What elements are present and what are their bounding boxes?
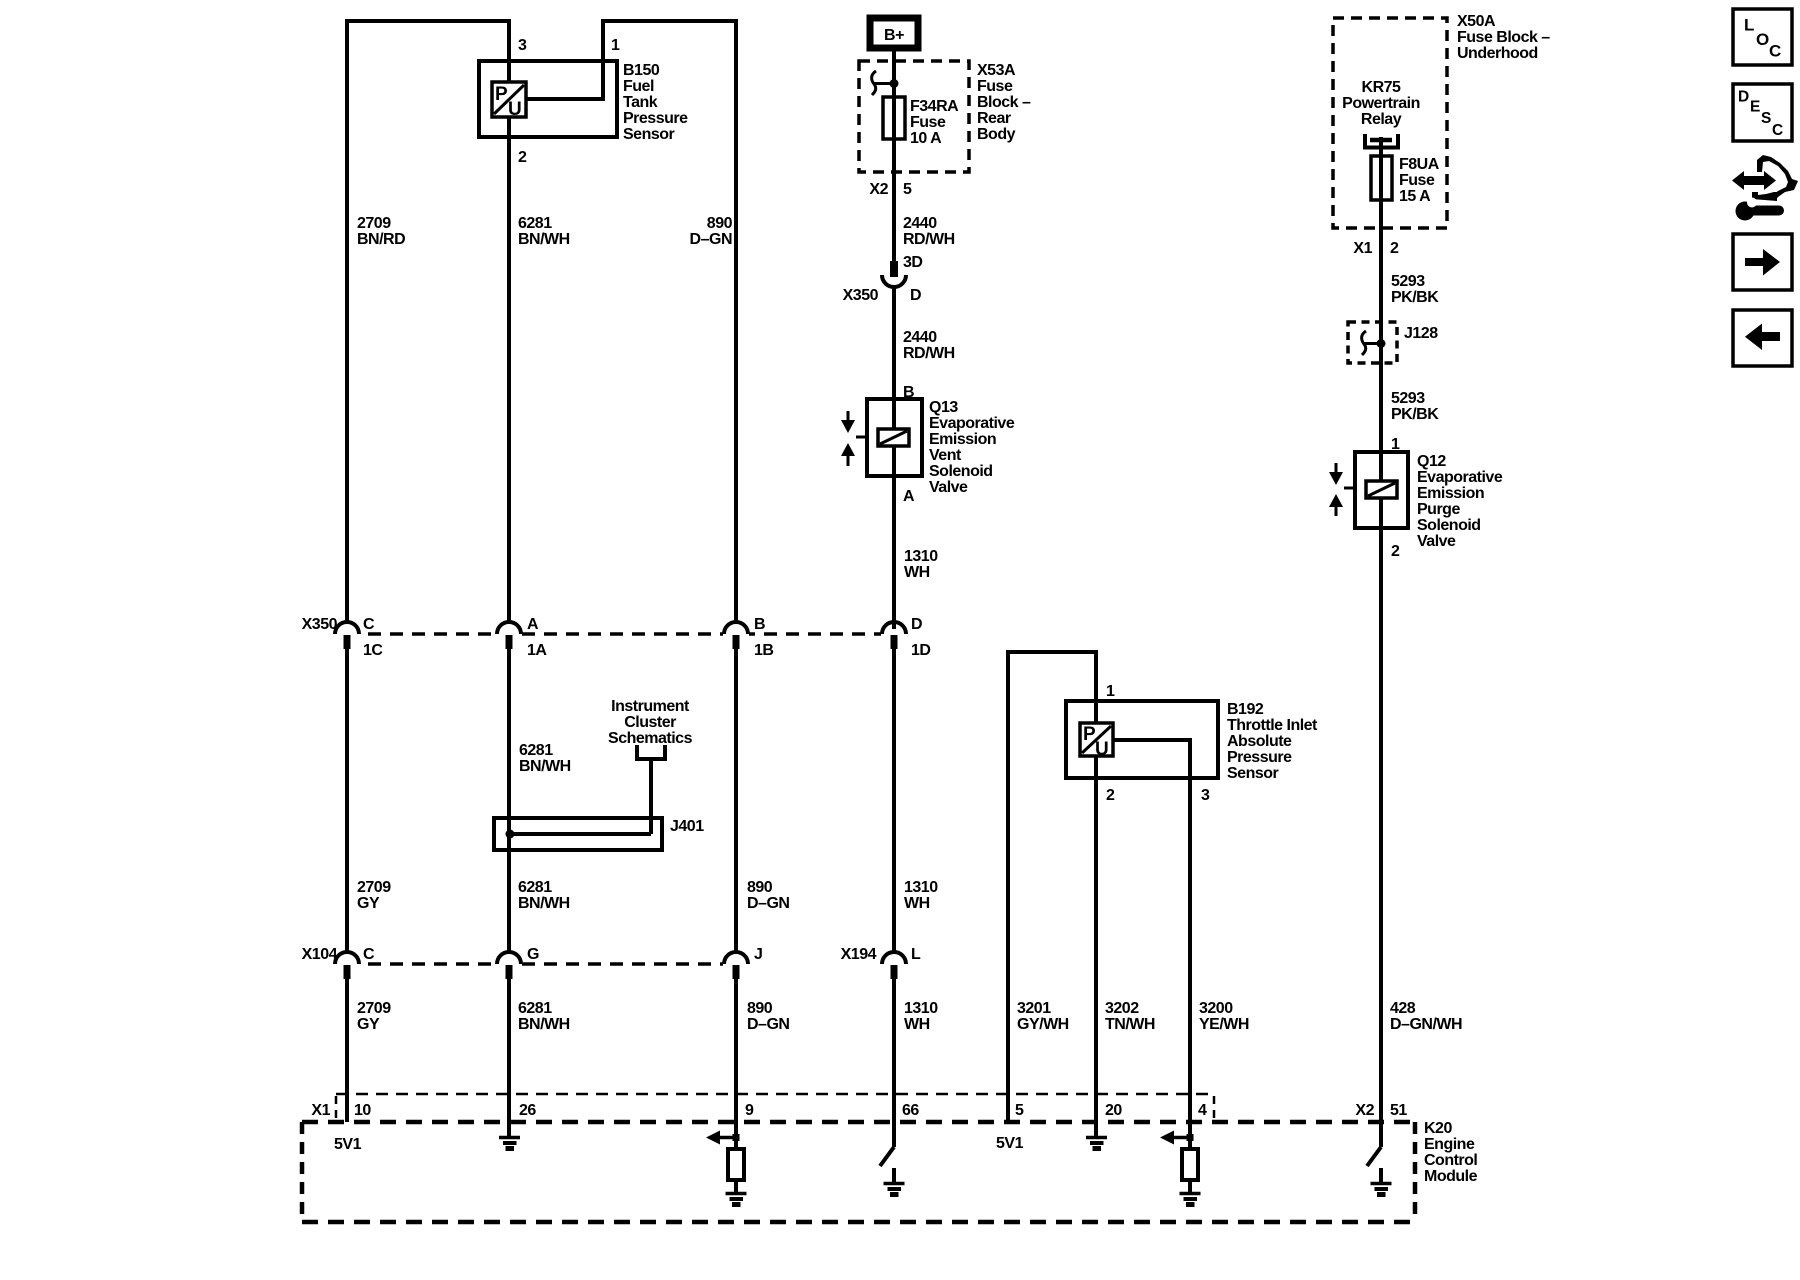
svg-text:1: 1 [1391,436,1400,453]
svg-text:Absolute: Absolute [1227,733,1292,750]
svg-text:10: 10 [354,1102,371,1119]
svg-text:3: 3 [1201,787,1210,804]
svg-text:Evaporative: Evaporative [929,415,1015,432]
svg-text:1A: 1A [527,642,547,659]
svg-text:Engine: Engine [1424,1136,1475,1153]
svg-text:Emission: Emission [1417,485,1484,502]
svg-text:Fuel: Fuel [623,78,654,95]
svg-text:6281: 6281 [518,879,552,896]
svg-text:26: 26 [519,1102,536,1119]
svg-text:X2: X2 [869,181,888,198]
svg-text:B150: B150 [623,62,660,79]
svg-text:15 A: 15 A [1399,188,1431,205]
svg-text:C: C [1769,42,1781,61]
svg-text:D–GN: D–GN [747,895,789,912]
svg-text:GY: GY [357,895,380,912]
svg-text:2: 2 [518,149,527,166]
svg-text:2709: 2709 [357,215,391,232]
svg-text:9: 9 [745,1102,754,1119]
svg-text:Module: Module [1424,1168,1478,1185]
svg-text:RD/WH: RD/WH [903,231,955,248]
svg-text:2: 2 [1106,787,1115,804]
svg-text:3: 3 [518,37,527,54]
svg-text:Pressure: Pressure [623,110,688,127]
svg-text:GY/WH: GY/WH [1017,1016,1069,1033]
svg-text:BN/WH: BN/WH [518,895,570,912]
svg-text:3200: 3200 [1199,1000,1233,1017]
svg-text:F8UA: F8UA [1399,156,1440,173]
svg-text:BN/WH: BN/WH [519,758,571,775]
svg-text:D–GN: D–GN [747,1016,789,1033]
svg-text:Control: Control [1424,1152,1477,1169]
svg-text:10 A: 10 A [910,130,942,147]
svg-text:1310: 1310 [904,879,938,896]
svg-text:L: L [911,946,921,963]
svg-text:428: 428 [1390,1000,1416,1017]
svg-text:BN/WH: BN/WH [518,1016,570,1033]
svg-text:D: D [1738,89,1749,106]
svg-text:B192: B192 [1227,701,1264,718]
svg-text:5: 5 [903,181,912,198]
svg-text:D: D [910,287,921,304]
svg-text:X1: X1 [1353,240,1372,257]
svg-text:X194: X194 [841,946,877,963]
svg-text:Fuse: Fuse [1399,172,1435,189]
svg-text:G: G [527,946,539,963]
svg-text:Vent: Vent [929,447,962,464]
svg-text:U: U [1095,739,1109,760]
svg-text:2709: 2709 [357,1000,391,1017]
svg-text:GY: GY [357,1016,380,1033]
svg-text:X350: X350 [843,287,879,304]
svg-text:Q12: Q12 [1417,453,1446,470]
svg-text:F34RA: F34RA [910,98,959,115]
svg-text:Body: Body [977,126,1016,143]
svg-text:5: 5 [1015,1102,1024,1119]
svg-text:6281: 6281 [518,1000,552,1017]
svg-text:Relay: Relay [1361,111,1402,128]
svg-text:Solenoid: Solenoid [929,463,993,480]
svg-text:Valve: Valve [1417,533,1456,550]
svg-text:1: 1 [1106,683,1115,700]
svg-text:1310: 1310 [904,1000,938,1017]
svg-text:2: 2 [1390,240,1399,257]
svg-text:BN/RD: BN/RD [357,231,405,248]
svg-text:890: 890 [747,879,773,896]
svg-text:K20: K20 [1424,1120,1452,1137]
svg-text:Fuse Block –: Fuse Block – [1457,29,1550,46]
svg-text:Fuse: Fuse [977,78,1013,95]
svg-text:1B: 1B [754,642,773,659]
svg-text:C: C [363,946,375,963]
svg-text:D–GN: D–GN [690,231,732,248]
svg-text:6281: 6281 [519,742,553,759]
svg-text:E: E [1750,99,1760,116]
svg-text:KR75: KR75 [1362,79,1402,96]
svg-text:890: 890 [747,1000,773,1017]
svg-text:WH: WH [904,895,930,912]
svg-text:1C: 1C [363,642,383,659]
svg-text:5293: 5293 [1391,273,1425,290]
svg-text:2440: 2440 [903,329,937,346]
svg-text:3D: 3D [903,254,922,271]
svg-text:X350: X350 [302,616,338,633]
svg-text:J128: J128 [1404,325,1438,342]
svg-text:5V1: 5V1 [334,1136,362,1153]
svg-text:P: P [495,84,508,105]
svg-text:BN/WH: BN/WH [518,231,570,248]
svg-text:PK/BK: PK/BK [1391,289,1439,306]
svg-text:51: 51 [1390,1102,1407,1119]
svg-text:Solenoid: Solenoid [1417,517,1481,534]
svg-text:X1: X1 [311,1102,330,1119]
svg-text:Valve: Valve [929,479,968,496]
svg-text:Rear: Rear [977,110,1011,127]
svg-text:1: 1 [611,37,620,54]
svg-text:B: B [903,384,914,401]
svg-text:U: U [508,99,522,120]
svg-text:3201: 3201 [1017,1000,1051,1017]
svg-text:Tank: Tank [623,94,658,111]
svg-text:PK/BK: PK/BK [1391,406,1439,423]
svg-text:Evaporative: Evaporative [1417,469,1503,486]
svg-text:J401: J401 [670,818,704,835]
svg-text:X2: X2 [1355,1102,1374,1119]
svg-text:O: O [1756,30,1769,49]
svg-text:Cluster: Cluster [624,714,676,731]
svg-text:Throttle Inlet: Throttle Inlet [1227,717,1318,734]
svg-text:D: D [911,616,922,633]
svg-text:4: 4 [1198,1102,1207,1119]
svg-text:Underhood: Underhood [1457,45,1538,62]
svg-text:Sensor: Sensor [1227,765,1279,782]
svg-text:5293: 5293 [1391,390,1425,407]
svg-text:20: 20 [1105,1102,1122,1119]
svg-text:1310: 1310 [904,548,938,565]
svg-text:S: S [1761,110,1771,127]
svg-text:L: L [1744,16,1754,35]
svg-text:C: C [1772,122,1783,139]
svg-text:Powertrain: Powertrain [1342,95,1420,112]
svg-text:RD/WH: RD/WH [903,345,955,362]
svg-text:Pressure: Pressure [1227,749,1292,766]
svg-text:X50A: X50A [1457,13,1496,30]
svg-text:X104: X104 [302,946,338,963]
svg-text:Instrument: Instrument [611,698,690,715]
svg-text:6281: 6281 [518,215,552,232]
svg-text:A: A [903,488,915,505]
svg-text:Fuse: Fuse [910,114,946,131]
svg-text:1D: 1D [911,642,930,659]
svg-text:Q13: Q13 [929,399,958,416]
svg-text:TN/WH: TN/WH [1105,1016,1155,1033]
svg-text:WH: WH [904,564,930,581]
svg-text:2440: 2440 [903,215,937,232]
svg-text:Purge: Purge [1417,501,1460,518]
svg-text:66: 66 [902,1102,919,1119]
svg-text:A: A [527,616,539,633]
svg-text:C: C [363,616,375,633]
svg-text:B+: B+ [884,27,904,44]
svg-text:Emission: Emission [929,431,996,448]
svg-text:890: 890 [707,215,733,232]
svg-text:2709: 2709 [357,879,391,896]
svg-text:YE/WH: YE/WH [1199,1016,1249,1033]
svg-text:J: J [754,946,762,963]
svg-text:WH: WH [904,1016,930,1033]
svg-text:3202: 3202 [1105,1000,1139,1017]
svg-text:5V1: 5V1 [996,1135,1024,1152]
svg-text:2: 2 [1391,543,1400,560]
svg-text:Schematics: Schematics [608,730,693,747]
svg-text:Block –: Block – [977,94,1031,111]
svg-text:D–GN/WH: D–GN/WH [1390,1016,1462,1033]
svg-text:B: B [754,616,765,633]
svg-text:Sensor: Sensor [623,126,675,143]
svg-text:X53A: X53A [977,62,1016,79]
